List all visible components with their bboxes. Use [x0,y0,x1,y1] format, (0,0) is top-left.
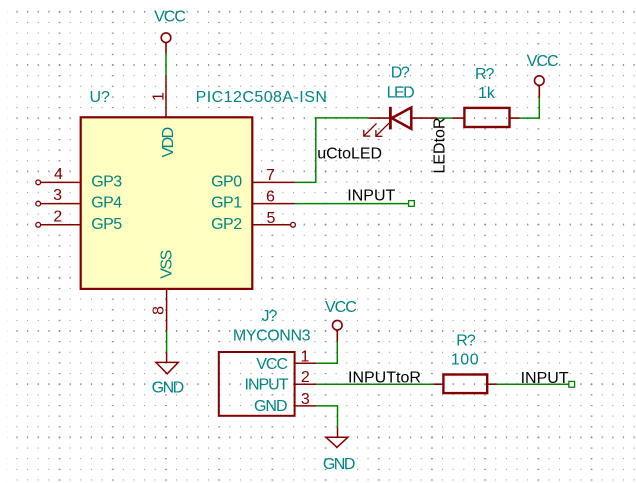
LED D? [363,107,437,137]
svg-text:GP3: GP3 [91,173,122,190]
svg-text:7: 7 [266,167,275,184]
connector pin 2 (INPUT) [295,369,317,386]
pin 3 (GP4) [36,187,81,206]
ground symbol GND (bottom) [326,428,348,448]
svg-text:6: 6 [266,189,275,206]
power symbol VCC (right) [535,76,545,98]
wire GP0 to LED [295,118,369,182]
unconnected wire end square (right INPUT) [569,381,575,387]
svg-text:1k: 1k [478,85,496,102]
svg-text:5: 5 [267,210,276,227]
svg-text:LEDtoR: LEDtoR [432,117,449,173]
svg-text:GP1: GP1 [211,195,242,212]
svg-text:INPUT: INPUT [347,187,395,204]
svg-text:GP4: GP4 [91,195,122,212]
connector J? MYCONN3 body [219,352,295,416]
wire R? 1k to VCC [520,98,540,118]
svg-text:4: 4 [54,166,63,183]
svg-text:R?: R? [456,333,476,350]
svg-text:GP5: GP5 [91,216,122,233]
svg-text:INPUT: INPUT [521,370,569,387]
svg-text:VDD: VDD [160,127,177,157]
svg-text:J?: J? [261,308,277,325]
svg-text:VCC: VCC [154,9,185,26]
unconnected wire end square (GP1 INPUT) [409,201,415,207]
svg-text:3: 3 [53,187,62,204]
wire VCC to U? pin 1 [165,53,167,75]
svg-text:INPUT: INPUT [245,376,289,393]
svg-text:2: 2 [301,369,310,386]
svg-text:2: 2 [53,209,62,226]
svg-text:R?: R? [475,66,495,83]
ground symbol GND (left) [156,352,178,374]
svg-text:GND: GND [254,398,287,415]
wire GP1 to INPUT end [295,203,409,205]
svg-text:GND: GND [152,380,184,397]
resistor R? 1k [452,108,519,127]
svg-text:U?: U? [89,89,110,106]
svg-text:PIC12C508A-ISN: PIC12C508A-ISN [196,89,328,106]
svg-text:VCC: VCC [325,299,356,316]
svg-text:VSS: VSS [159,250,176,278]
pin 5 (GP2) [252,210,295,227]
pin 2 (GP5) [36,209,81,228]
svg-text:LED: LED [387,85,415,102]
pin 1 (VDD) [151,76,168,118]
svg-text:VCC: VCC [527,53,558,70]
svg-text:VCC: VCC [256,356,287,373]
svg-text:uCtoLED: uCtoLED [317,145,382,162]
pin 4 (GP3) [36,166,81,185]
pin 7 (GP0) [252,167,294,184]
svg-text:D?: D? [391,64,410,81]
svg-text:INPUTtoR: INPUTtoR [348,370,421,387]
pin 6 (GP1) [252,189,294,206]
power symbol VCC (top) [161,33,171,54]
wire J? pin2 to R? 100 [316,383,433,385]
wire J? pin1 to VCC [316,341,337,363]
svg-text:100: 100 [451,351,479,368]
wire LED to R? 1k [437,117,452,119]
svg-text:1: 1 [151,92,168,101]
IC U? body [81,117,253,289]
svg-text:GP0: GP0 [211,173,242,190]
svg-text:1: 1 [300,349,309,366]
svg-text:3: 3 [301,391,310,408]
svg-text:GND: GND [323,456,355,473]
connector pin 3 (GND) [295,391,317,408]
svg-text:GP2: GP2 [211,216,242,233]
wire R? 100 to INPUT end [497,383,569,385]
wire J? pin3 to GND [316,406,337,428]
svg-text:8: 8 [150,306,167,315]
connector pin 1 (VCC) [295,349,317,366]
wire VSS pin 8 to GND [166,331,168,352]
svg-text:MYCONN3: MYCONN3 [233,328,311,345]
resistor R? 100 [433,375,496,394]
power symbol VCC (bottom) [333,320,343,341]
pin 8 (VSS) [150,289,167,331]
